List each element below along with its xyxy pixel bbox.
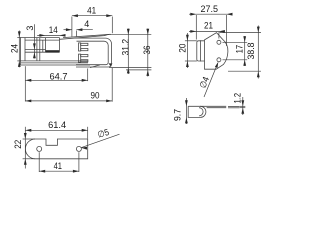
tooth upper bar 1 xyxy=(81,43,88,45)
svg-text:31.2: 31.2 xyxy=(121,39,131,56)
dimension 17 xyxy=(244,36,246,66)
svg-text:27.5: 27.5 xyxy=(201,4,219,14)
bracket inner top edge xyxy=(25,39,60,41)
svg-text:36: 36 xyxy=(142,46,152,55)
dimension 41 xyxy=(72,15,112,17)
dimension 61.4 xyxy=(25,129,87,131)
tooth lower post xyxy=(79,54,81,62)
svg-text:90: 90 xyxy=(91,91,100,101)
dimension 9.7 xyxy=(185,98,187,124)
body outline xyxy=(205,33,228,70)
dimension 41 lower xyxy=(39,170,79,172)
grip right edge xyxy=(59,38,61,53)
curl inner xyxy=(199,108,203,116)
dimension 1.2 xyxy=(242,97,244,115)
svg-text:9.7: 9.7 xyxy=(173,109,183,121)
bracket left inner edge xyxy=(24,37,26,61)
dimension 20 xyxy=(186,33,188,68)
svg-text:1.2: 1.2 xyxy=(233,93,243,104)
bracket inner vertical 2 xyxy=(39,38,41,61)
grip left edge xyxy=(45,38,47,53)
sheet stub top xyxy=(228,105,240,107)
svg-text:21: 21 xyxy=(204,21,213,31)
sheet top line xyxy=(188,105,226,107)
bracket left outer edge xyxy=(20,37,22,65)
loop inner xyxy=(76,41,108,64)
dimension 14 xyxy=(37,34,65,36)
plate end diagonal xyxy=(90,65,100,68)
dimension 31.2 xyxy=(127,29,129,75)
tooth lower bar 2 xyxy=(81,60,88,62)
svg-text:4: 4 xyxy=(84,19,89,29)
bail tip dark xyxy=(109,63,113,67)
dimension 38.8 xyxy=(257,26,259,79)
dimension 64.7 xyxy=(25,79,87,81)
bracket top edge xyxy=(21,37,60,39)
plate bottom edge xyxy=(21,64,90,66)
plate mid edge xyxy=(21,62,88,64)
wire bar bottom xyxy=(25,51,46,53)
svg-text:17: 17 xyxy=(235,45,245,54)
ear outline xyxy=(197,41,205,61)
loop outer xyxy=(75,38,112,67)
dimension 90 xyxy=(25,100,112,102)
svg-text:41: 41 xyxy=(54,161,62,171)
plate top edge xyxy=(21,60,88,62)
tooth lower bar 1 xyxy=(81,55,88,57)
tooth upper post xyxy=(79,43,81,51)
wire bar top xyxy=(25,49,46,51)
dimension 4 xyxy=(64,29,72,31)
lever bottom slant xyxy=(60,36,105,40)
svg-text:24: 24 xyxy=(10,44,20,53)
hole bottom xyxy=(217,58,221,62)
hole right xyxy=(76,146,81,151)
dimension 3 xyxy=(33,24,35,58)
dimension 24 xyxy=(18,31,20,68)
hole top xyxy=(217,40,221,44)
sheet bottom line xyxy=(207,107,227,109)
sheet stub bottom xyxy=(228,107,240,109)
dimension 27.5 xyxy=(189,13,232,15)
ear inner edge xyxy=(199,40,201,61)
svg-text:20: 20 xyxy=(178,44,188,53)
dimension 36 xyxy=(147,29,149,77)
grip pad dark xyxy=(46,50,60,52)
bracket inner vertical 1 xyxy=(36,38,38,61)
dimension 21 xyxy=(189,30,225,32)
leader dia5 xyxy=(81,134,120,148)
dimension 22 xyxy=(23,138,35,140)
hook tip pinch xyxy=(105,34,111,36)
svg-text:14: 14 xyxy=(49,25,58,35)
svg-text:41: 41 xyxy=(87,6,96,16)
plate outline xyxy=(25,139,87,159)
tooth upper bar 2 xyxy=(81,49,88,51)
leader dia4 xyxy=(204,64,218,97)
curl outer xyxy=(188,106,206,117)
bracket inner vertical 3 xyxy=(42,40,44,52)
grip bottom edge xyxy=(46,51,60,53)
lever top slant xyxy=(63,34,111,37)
svg-text:38.8: 38.8 xyxy=(246,43,256,60)
svg-text:22: 22 xyxy=(13,140,23,149)
svg-text:3: 3 xyxy=(25,26,35,31)
hole left xyxy=(37,146,42,151)
svg-text:61.4: 61.4 xyxy=(48,120,66,130)
svg-text:64.7: 64.7 xyxy=(50,71,68,81)
